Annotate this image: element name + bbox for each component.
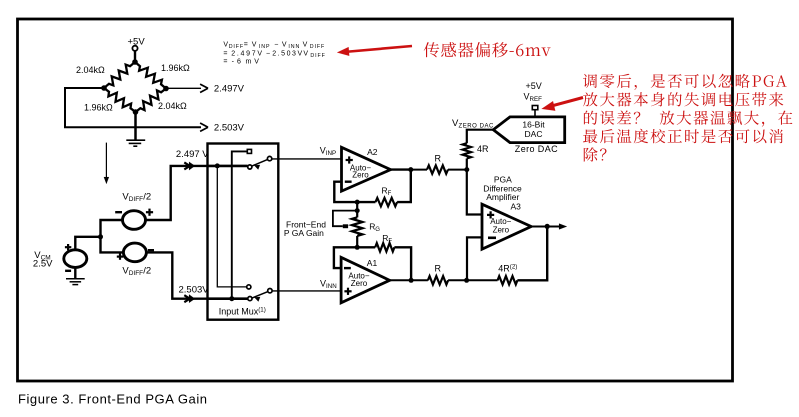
svg-text:V: V bbox=[303, 41, 309, 48]
svg-text:Zero: Zero bbox=[351, 279, 368, 288]
svg-text:REF: REF bbox=[530, 96, 543, 103]
svg-text:DIFF: DIFF bbox=[310, 44, 325, 50]
svg-text:2.503V: 2.503V bbox=[272, 51, 304, 58]
svg-text:Figure 3. Front-End PGA Gain: Figure 3. Front-End PGA Gain bbox=[18, 392, 208, 407]
svg-text:4R: 4R bbox=[477, 144, 489, 154]
svg-text:R: R bbox=[435, 264, 442, 274]
svg-text:F: F bbox=[388, 191, 392, 197]
svg-text:R: R bbox=[435, 154, 442, 164]
svg-text:2.04k: 2.04k bbox=[76, 65, 99, 75]
svg-text:G: G bbox=[375, 227, 380, 233]
svg-text:2.497V: 2.497V bbox=[231, 51, 263, 58]
svg-text:16-Bit: 16-Bit bbox=[522, 119, 545, 129]
svg-text:Ω: Ω bbox=[180, 101, 187, 111]
svg-text:Auto−: Auto− bbox=[490, 217, 511, 226]
svg-text:=: = bbox=[223, 59, 228, 66]
svg-text:P GA Gain: P GA Gain bbox=[284, 228, 324, 238]
svg-text:2.04k: 2.04k bbox=[158, 101, 181, 111]
svg-text:−: − bbox=[274, 41, 279, 48]
svg-text:6: 6 bbox=[237, 59, 242, 66]
svg-text:−: − bbox=[266, 51, 271, 58]
svg-text:Ω: Ω bbox=[106, 103, 113, 113]
svg-text:V: V bbox=[254, 59, 260, 66]
svg-text:Zero DAC: Zero DAC bbox=[515, 144, 558, 154]
svg-text:1.96k: 1.96k bbox=[161, 63, 184, 73]
svg-text:/2: /2 bbox=[143, 265, 151, 276]
svg-text:INP: INP bbox=[326, 150, 336, 157]
svg-text:+5V: +5V bbox=[526, 81, 542, 91]
svg-text:INN: INN bbox=[288, 44, 300, 50]
svg-text:m: m bbox=[246, 59, 253, 66]
svg-text:A2: A2 bbox=[367, 147, 378, 157]
svg-text:A3: A3 bbox=[511, 202, 522, 212]
svg-text:2.497 V: 2.497 V bbox=[176, 149, 209, 160]
svg-text:=: = bbox=[223, 51, 228, 58]
svg-text:Zero: Zero bbox=[493, 226, 510, 235]
svg-text:(1): (1) bbox=[258, 306, 266, 313]
svg-text:DIFF: DIFF bbox=[310, 53, 325, 59]
svg-text:ZERO DAC: ZERO DAC bbox=[459, 123, 495, 129]
svg-text:A1: A1 bbox=[367, 258, 378, 268]
svg-text:/2: /2 bbox=[143, 191, 151, 202]
svg-text:1.96k: 1.96k bbox=[84, 103, 107, 113]
svg-text:4R: 4R bbox=[498, 264, 510, 274]
svg-text:DAC: DAC bbox=[525, 129, 543, 139]
svg-text:DIFF: DIFF bbox=[129, 196, 143, 203]
svg-text:Ω: Ω bbox=[183, 63, 190, 73]
svg-text:2.503V: 2.503V bbox=[179, 284, 210, 295]
svg-text:DIFF: DIFF bbox=[229, 44, 244, 50]
svg-text:F: F bbox=[388, 239, 392, 245]
svg-text:Amplifier: Amplifier bbox=[486, 192, 519, 202]
svg-text:Zero: Zero bbox=[352, 171, 369, 180]
svg-text:INN: INN bbox=[326, 283, 337, 290]
svg-text:2.497V: 2.497V bbox=[214, 84, 245, 95]
svg-text:Ω: Ω bbox=[98, 65, 105, 75]
svg-text:2.503V: 2.503V bbox=[214, 122, 245, 133]
svg-text:(2): (2) bbox=[510, 263, 518, 270]
svg-text:=: = bbox=[244, 41, 249, 48]
svg-text:DIFF: DIFF bbox=[129, 270, 143, 277]
svg-text:-: - bbox=[232, 59, 235, 66]
svg-text:Input Mux: Input Mux bbox=[219, 307, 259, 317]
svg-text:2.5V: 2.5V bbox=[33, 258, 53, 269]
svg-text:V: V bbox=[303, 51, 309, 58]
svg-text:V: V bbox=[252, 41, 258, 48]
svg-text:INP: INP bbox=[259, 44, 271, 50]
svg-text:V: V bbox=[282, 41, 288, 48]
